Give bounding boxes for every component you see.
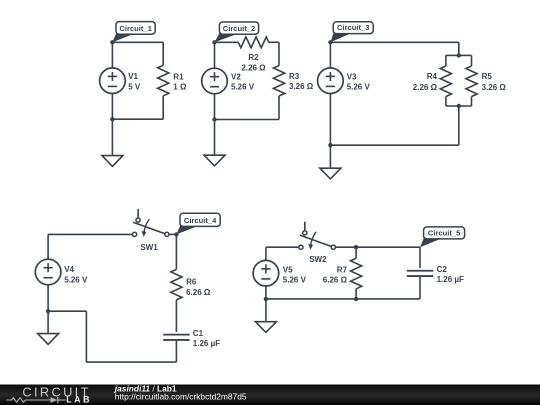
wire (111, 94, 113, 120)
wire (175, 340, 177, 362)
node R7 bottom (354, 297, 358, 301)
node bottom junction (264, 297, 268, 301)
svg-text:R4: R4 (427, 72, 438, 81)
wire (175, 300, 177, 332)
wire (330, 41, 458, 43)
wire (265, 299, 267, 322)
resistor R4 (440, 66, 451, 97)
svg-text:5.26 V: 5.26 V (64, 275, 88, 284)
wire (215, 41, 239, 43)
node bottom junction (110, 117, 114, 121)
ground (204, 155, 225, 166)
voltage source V1 (100, 68, 126, 94)
svg-text:1.26 µF: 1.26 µF (193, 339, 220, 348)
svg-text:SW2: SW2 (309, 255, 327, 264)
svg-text:5.26 V: 5.26 V (283, 275, 307, 284)
capacitor C2 (407, 270, 433, 272)
voltage source V4 (35, 259, 61, 285)
wire (329, 145, 331, 168)
wire (419, 247, 421, 268)
wire (48, 233, 132, 235)
wire (169, 233, 176, 235)
svg-text:V3: V3 (347, 72, 357, 81)
wire (471, 97, 473, 107)
node parallel bottom (457, 104, 461, 108)
resistor R6 (171, 269, 182, 300)
svg-text:V5: V5 (283, 265, 293, 274)
resistor R7 (351, 258, 362, 289)
node R7 top (354, 245, 358, 249)
wire (214, 42, 216, 68)
wire (214, 94, 216, 120)
switch SW2 (304, 222, 306, 231)
wire (265, 247, 267, 260)
logo resistor zigzag and diode (7, 398, 51, 403)
node bottom junction (212, 117, 216, 121)
wire (458, 106, 460, 145)
svg-text:LAB: LAB (66, 394, 92, 404)
wire (266, 246, 299, 248)
wire (112, 118, 163, 120)
svg-text:http://circuitlab.com/crkbctd2: http://circuitlab.com/crkbctd2m87d5 (115, 392, 247, 402)
svg-text:V2: V2 (231, 72, 241, 81)
svg-text:R2: R2 (248, 53, 259, 62)
svg-text:5 V: 5 V (128, 83, 141, 92)
wire (214, 120, 216, 156)
ground (102, 156, 123, 167)
voltage source V3 (318, 68, 344, 94)
wire (336, 246, 420, 248)
voltage source V2 (202, 68, 228, 94)
wire (355, 247, 357, 258)
ground (38, 334, 59, 345)
svg-text:2.26 Ω: 2.26 Ω (413, 83, 438, 92)
svg-text:5.26 V: 5.26 V (231, 83, 255, 92)
switch SW1 (137, 209, 139, 218)
wire (162, 42, 164, 65)
wire (85, 311, 87, 362)
wire (445, 55, 447, 66)
svg-text:1 Ω: 1 Ω (173, 83, 187, 92)
wire (446, 105, 472, 107)
svg-text:6.26 Ω: 6.26 Ω (186, 288, 211, 297)
net flag Circuit_5 (420, 236, 442, 248)
net flag Circuit_2 (215, 31, 238, 42)
node Circuit_2 top (212, 40, 216, 44)
wire (215, 119, 280, 121)
svg-text:Circuit_2: Circuit_2 (223, 24, 256, 33)
wire (278, 42, 280, 65)
svg-text:SW1: SW1 (140, 243, 158, 252)
svg-text:V1: V1 (128, 72, 138, 81)
node Circuit_1 top (110, 40, 114, 44)
node parallel top (457, 53, 461, 57)
wire (111, 42, 113, 68)
svg-text:R5: R5 (482, 72, 493, 81)
wire (111, 119, 113, 155)
wire (471, 55, 473, 66)
resistor R1 (158, 65, 169, 96)
svg-text:R6: R6 (186, 278, 197, 287)
svg-text:Circuit_3: Circuit_3 (337, 23, 370, 32)
svg-text:R1: R1 (173, 73, 184, 82)
ground (320, 168, 341, 179)
node bottom junction (328, 143, 332, 147)
wire (355, 289, 357, 299)
svg-text:1.26 µF: 1.26 µF (437, 275, 464, 284)
svg-text:Circuit_5: Circuit_5 (428, 229, 461, 238)
svg-text:3.26 Ω: 3.26 Ω (289, 82, 314, 91)
wire (329, 42, 331, 68)
capacitor C1 (163, 334, 189, 336)
wire (445, 97, 447, 107)
wire (269, 41, 279, 43)
wire (458, 42, 460, 55)
wire (47, 311, 49, 333)
wire (459, 54, 472, 56)
node Circuit_3 top (328, 40, 332, 44)
wire (48, 310, 86, 312)
net flag Circuit_1 (112, 31, 134, 42)
svg-text:R3: R3 (289, 72, 300, 81)
wire (278, 96, 280, 120)
wire (329, 94, 331, 146)
svg-text:R7: R7 (337, 266, 348, 275)
svg-text:Circuit_1: Circuit_1 (119, 24, 152, 33)
wire (266, 298, 420, 300)
wire (86, 361, 176, 363)
svg-text:6.26 Ω: 6.26 Ω (323, 276, 348, 285)
svg-text:Circuit_4: Circuit_4 (184, 216, 217, 225)
wire (112, 41, 163, 43)
svg-text:3.26 Ω: 3.26 Ω (482, 83, 507, 92)
wire (162, 96, 164, 119)
wire (175, 234, 177, 269)
resistor R2 (horizontal) (238, 37, 268, 48)
net flag Circuit_3 (330, 30, 351, 42)
svg-text:2.26 Ω: 2.26 Ω (241, 63, 266, 72)
wire (265, 286, 267, 299)
wire (47, 234, 49, 259)
net flag Circuit_4 (176, 223, 198, 234)
wire (419, 276, 421, 299)
resistor R5 (466, 66, 477, 97)
wire (330, 144, 458, 146)
svg-text:C2: C2 (437, 265, 448, 274)
svg-text:V4: V4 (64, 265, 74, 274)
wire (446, 54, 459, 56)
node Circuit_4 (174, 232, 178, 236)
node bottom junction (46, 309, 50, 313)
ground (255, 322, 276, 333)
resistor R3 (273, 66, 284, 97)
svg-text:C1: C1 (193, 329, 204, 338)
wire (47, 285, 49, 311)
svg-text:5.26 V: 5.26 V (347, 82, 371, 91)
voltage source V5 (253, 260, 279, 286)
